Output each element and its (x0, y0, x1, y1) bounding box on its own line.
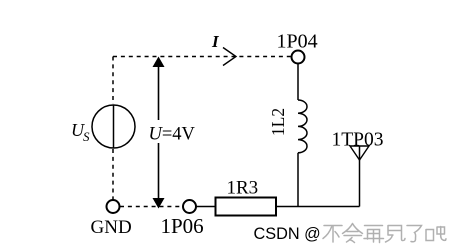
svg-text:GND: GND (91, 217, 132, 238)
了 (407, 226, 422, 242)
wire: bottom dashed from GND to 1P06 (120, 206, 183, 208)
svg-text:1P04: 1P04 (277, 31, 318, 53)
wire: inductor bottom lead junction (297, 64, 299, 100)
wire: inductor lead to bottom wire (297, 153, 299, 207)
wire: top dashed from source top corner to node 1P04 (113, 56, 291, 58)
吧 (426, 227, 446, 241)
svg-text:1L2: 1L2 (268, 108, 288, 136)
wire: left vertical dashed below source (112, 149, 114, 200)
svg-text:CSDN @: CSDN @ (254, 225, 321, 243)
current arrow head on top wire (223, 48, 236, 66)
svg-text:U=4V: U=4V (149, 125, 196, 145)
node 1P06 (183, 200, 196, 213)
svg-text:1TP03: 1TP03 (332, 130, 384, 151)
wire: left vertical dashed above source (112, 57, 114, 105)
svg-text:S: S (83, 129, 90, 144)
label U=4V (147, 123, 196, 143)
会 (343, 224, 363, 243)
不 (323, 226, 342, 243)
svg-text:1P06: 1P06 (161, 214, 204, 238)
见 (386, 226, 406, 243)
node GND (107, 200, 120, 213)
voltage arrow U=4V (double headed) (153, 57, 165, 209)
再 (364, 226, 384, 243)
inductor 1L2 coil (298, 100, 307, 153)
node 1P04 (292, 51, 305, 64)
voltage source US internal bar (113, 105, 115, 148)
voltage source US circle (92, 105, 135, 148)
watermark chinese glyphs (hand drawn) (323, 224, 446, 243)
wire: 1P06 to resistor (197, 206, 216, 208)
resistor R3 body (216, 198, 277, 216)
wire: resistor to test point corner (276, 206, 360, 208)
svg-text:1R3: 1R3 (227, 178, 259, 199)
test point 1TP03 symbol (350, 146, 369, 207)
